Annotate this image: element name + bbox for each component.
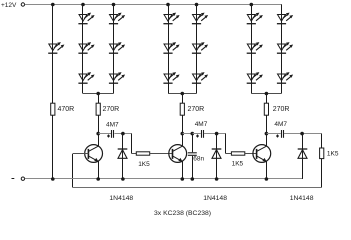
LED column B2 row 1: [109, 13, 125, 24]
wire 68n node to C2 left plate: [192, 133, 200, 135]
ground terminal (open circle): [21, 177, 24, 180]
resistor 270R: [264, 103, 268, 115]
wire 1K5 down to feedback: [321, 159, 323, 188]
wire join to resistor: [266, 94, 268, 104]
LED column D1 row 1: [247, 13, 263, 24]
junction on +12V rail x=113.5: [112, 3, 116, 7]
junction node C: [300, 132, 304, 136]
svg-text:4M7: 4M7: [274, 121, 287, 128]
junction join node: [265, 92, 269, 96]
label 4M7 (C3): [274, 121, 287, 128]
wire C1 to node A: [114, 133, 131, 135]
wire LED join: [251, 93, 281, 95]
LED column C2 row 1: [192, 13, 208, 24]
label 1K5 (stage3): [327, 151, 339, 158]
resistor 1K5 (stage2): [231, 152, 244, 155]
svg-text:270R: 270R: [103, 106, 120, 113]
wire Q1 collector: [98, 134, 100, 147]
diode D1 1N4148 wire: [122, 134, 124, 179]
svg-text:4M7: 4M7: [106, 121, 119, 128]
wire corner to R 1K5 (stage1): [132, 153, 136, 155]
wire column A mid: [52, 53, 54, 103]
transistor Q3 KC238: [253, 145, 271, 163]
wire LED join: [83, 93, 114, 95]
LED column B1 row 3: [78, 72, 94, 83]
diode D3 1N4148: [298, 149, 308, 158]
wire LED join: [168, 93, 197, 95]
wire resistor to collector node: [98, 115, 100, 133]
wire resistor to collector node: [182, 115, 184, 133]
resistor 1K5 (stage3, vertical): [320, 148, 324, 159]
label +12V: [1, 2, 17, 9]
capacitor C2 4M7: [196, 130, 204, 138]
wire Q2 emitter to ground: [182, 161, 184, 179]
diode D3 1N4148 wire: [302, 134, 304, 179]
junction Q2 collector node: [181, 132, 185, 136]
LED column C1 row 1: [163, 13, 179, 24]
wire C2 to node B: [204, 133, 226, 135]
wire feedback up to Q1 base: [72, 154, 74, 188]
wire collector node to 68n node: [182, 133, 192, 135]
wire Q3 collector: [266, 134, 268, 147]
label 270R: [273, 106, 290, 113]
capacitor C4 68n wire top: [192, 134, 194, 153]
wire Q3 emitter to ground: [266, 161, 268, 179]
LED column D2 row 2: [277, 42, 293, 53]
capacitor C3 4M7: [276, 130, 284, 138]
diode D2 1N4148 wire: [216, 134, 218, 179]
wire LED column D1: [251, 5, 253, 94]
wire node B corner down: [225, 134, 227, 154]
junction on ground rail x=122.9: [121, 177, 125, 181]
capacitor C4 68n wire bottom: [192, 156, 194, 179]
wire LED column B1: [82, 5, 84, 94]
label - (0V): [12, 178, 15, 180]
LED column C1 row 2: [163, 42, 179, 53]
junction on +12V rail x=168.0: [166, 3, 170, 7]
wire join to resistor: [98, 94, 100, 104]
wire LED column B2: [113, 5, 115, 94]
junction on +12V rail x=52.8: [51, 3, 55, 7]
junction on +12V rail x=196.5: [195, 3, 199, 7]
LED column C2 row 3: [192, 72, 208, 83]
wire Q2 collector: [182, 134, 184, 147]
wire Q1 emitter to ground: [98, 161, 100, 179]
svg-text:1K5: 1K5: [138, 161, 150, 168]
LED column D1 row 2: [247, 42, 263, 53]
svg-text:1N4148: 1N4148: [290, 195, 314, 202]
label 270R: [188, 106, 205, 113]
junction on +12V rail x=83.0: [81, 3, 85, 7]
junction join node: [181, 92, 185, 96]
wire 1K5 to Q2 base: [150, 153, 173, 155]
junction on ground rail x=266.4: [265, 177, 269, 181]
svg-text:470R: 470R: [58, 106, 75, 113]
wire join to resistor: [182, 94, 184, 104]
label 270R: [103, 106, 120, 113]
label 1N4148 (D2): [203, 195, 227, 202]
junction node B: [215, 132, 219, 136]
wire node C corner down to 1K5: [321, 134, 323, 148]
junction on +12V rail x=251.3: [250, 3, 254, 7]
LED column C2 row 2: [192, 42, 208, 53]
wire ground rail: [25, 178, 302, 180]
label 4M7 (C2): [195, 121, 208, 128]
LED column D1 row 3: [247, 72, 263, 83]
junction join node: [96, 92, 100, 96]
wire LED column C2: [196, 5, 198, 94]
wire collector node to C3 left plate: [266, 133, 280, 135]
junction on ground rail x=52.8: [51, 177, 55, 181]
LED column D2 row 1: [277, 13, 293, 24]
wire top rail right corner drop: [281, 5, 283, 15]
junction 68n node: [191, 132, 195, 136]
diode D1 1N4148: [118, 149, 128, 158]
junction Q1 collector node: [96, 132, 100, 136]
wire resistor to collector node: [266, 115, 268, 133]
label 3x KC238 (BC238): [154, 210, 211, 217]
label 4M7 (C1): [106, 121, 119, 128]
junction on ground rail x=98.2: [96, 177, 100, 181]
junction on ground rail x=192.3: [191, 177, 195, 181]
svg-text:1K5: 1K5: [232, 160, 244, 167]
LED column B1 row 1: [78, 13, 94, 24]
wire collector node to C1 left plate: [98, 133, 111, 135]
label 68n: [193, 155, 204, 162]
capacitor C1 4M7: [107, 130, 114, 138]
wire top +12V rail: [25, 4, 282, 6]
junction node A: [121, 132, 125, 136]
transistor Q1 KC238: [85, 145, 103, 163]
resistor R1 470R: [51, 103, 55, 115]
LED column C1 row 3: [163, 72, 179, 83]
svg-text:270R: 270R: [188, 106, 205, 113]
LED column D2 row 3: [277, 72, 293, 83]
label 470R: [58, 106, 75, 113]
resistor 270R: [180, 103, 184, 115]
wire corner to R 1K5 (stage2): [226, 153, 232, 155]
resistor 270R: [96, 103, 100, 115]
wire column A bottom: [52, 115, 54, 179]
wire feedback rail: [73, 187, 322, 189]
svg-text:1N4148: 1N4148: [203, 195, 227, 202]
transistor Q2 KC238: [169, 145, 187, 163]
resistor 1K5 (stage1): [136, 152, 149, 155]
wire LED column C1: [168, 5, 170, 94]
svg-text:+12V: +12V: [1, 2, 17, 9]
svg-text:68n: 68n: [193, 155, 204, 162]
junction Q3 collector node: [265, 132, 269, 136]
label 1K5 (stage2): [232, 160, 244, 167]
svg-text:1K5: 1K5: [327, 151, 339, 158]
svg-text:3x KC238 (BC238): 3x KC238 (BC238): [154, 210, 211, 217]
svg-text:4M7: 4M7: [195, 121, 208, 128]
label 1N4148 (D3): [290, 195, 314, 202]
wire node A corner down: [131, 134, 133, 154]
wire column A top: [52, 5, 54, 54]
diode D2 1N4148: [212, 149, 222, 158]
label 1N4148 (D1): [109, 195, 133, 202]
LED column A: [48, 42, 64, 53]
svg-text:1N4148: 1N4148: [109, 195, 133, 202]
capacitor C4 68n: [188, 153, 197, 156]
wire 1K5 to Q3 base: [245, 153, 257, 155]
svg-text:270R: 270R: [273, 106, 290, 113]
LED column B2 row 3: [109, 72, 125, 83]
junction on ground rail x=216.6: [215, 177, 219, 181]
LED column B2 row 2: [109, 42, 125, 53]
wire Q1 base lead: [73, 153, 89, 155]
junction on ground rail x=182.3: [181, 177, 185, 181]
LED column B1 row 2: [78, 42, 94, 53]
label 1K5 (stage1): [138, 161, 150, 168]
wire C3 to node C: [284, 133, 322, 135]
wire LED column D2: [281, 15, 283, 94]
power terminal +12V (open circle): [21, 3, 24, 6]
